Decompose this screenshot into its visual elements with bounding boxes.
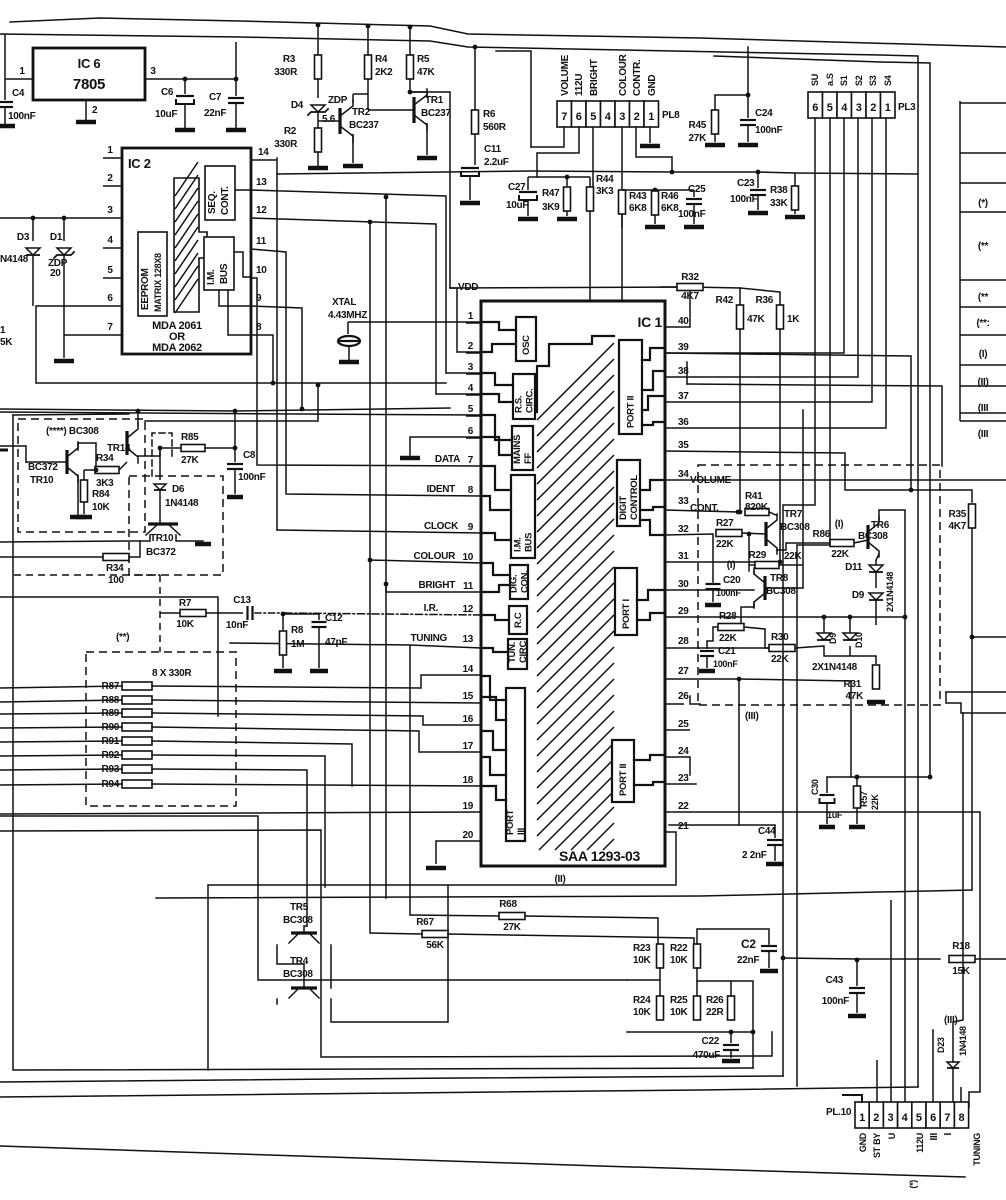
label (I) R86 xyxy=(835,519,844,530)
capacitor C22 470uF xyxy=(693,1032,739,1061)
wire D4/R2 node to TR2 base xyxy=(318,120,340,122)
svg-text:7: 7 xyxy=(107,322,113,333)
IC1 left pin 19 number xyxy=(462,801,473,812)
wire R44 bottom down xyxy=(589,230,591,301)
PL8 pin3 label COLOUR xyxy=(618,53,629,96)
svg-text:11: 11 xyxy=(256,236,267,247)
wire right stub y212 xyxy=(960,211,1006,213)
net label (II) xyxy=(977,377,988,388)
IC1 left pin 8 number xyxy=(468,485,474,496)
svg-text:5: 5 xyxy=(916,1112,922,1124)
svg-text:6K8: 6K8 xyxy=(661,203,679,214)
wire IC1 pin12 IR dashdot xyxy=(285,613,481,615)
resistor R43 6K8 xyxy=(619,190,648,228)
node C8 xyxy=(233,446,238,451)
svg-text:R46: R46 xyxy=(661,191,679,202)
svg-text:I.R.: I.R. xyxy=(424,603,439,614)
wire right rail y384 xyxy=(687,362,942,466)
svg-text:R85: R85 xyxy=(181,432,199,443)
wire TR4 base wire xyxy=(303,964,305,988)
label (II) below IC1 xyxy=(554,874,565,885)
wire R68 line xyxy=(410,915,658,944)
resistor R89 330R xyxy=(102,708,152,719)
svg-text:5: 5 xyxy=(590,111,596,123)
svg-text:N4148: N4148 xyxy=(0,254,29,265)
svg-text:R.S.: R.S. xyxy=(514,396,525,413)
svg-text:BRIGHT: BRIGHT xyxy=(589,59,600,96)
hline left tick xyxy=(0,449,8,452)
capacitor C20 100nF xyxy=(706,575,742,602)
wire R5 node to TR1/VDD xyxy=(410,92,450,288)
diode D10 xyxy=(843,617,864,648)
svg-text:100nF: 100nF xyxy=(730,194,758,205)
wire vertical B xyxy=(384,195,389,898)
svg-text:BC237: BC237 xyxy=(421,108,451,119)
IC1 left pin 10 number xyxy=(462,552,473,563)
label COLOUR pin10 xyxy=(413,551,456,562)
label CLOCK pin9 xyxy=(424,521,459,532)
svg-text:(I): (I) xyxy=(835,519,844,530)
svg-text:28: 28 xyxy=(678,636,689,647)
svg-text:D9: D9 xyxy=(828,633,838,644)
wire bottom bus line 3 xyxy=(0,1146,965,1177)
PL8 pin1 label GND xyxy=(647,75,658,96)
diode D9 mid xyxy=(817,617,838,644)
wire bus R87 to pin14 xyxy=(0,675,481,688)
svg-text:R32: R32 xyxy=(681,272,699,283)
svg-text:2: 2 xyxy=(634,111,640,123)
IC2 pin8 wire xyxy=(251,322,273,383)
svg-text:12: 12 xyxy=(256,205,267,216)
dashed box star4 xyxy=(18,419,145,532)
diode D11 xyxy=(845,560,883,573)
wire IC1 pin3 xyxy=(446,372,481,374)
wire bus R92 down xyxy=(0,755,325,887)
node R41 junction xyxy=(736,510,743,515)
wire bus R91 join pin18 xyxy=(0,741,352,786)
ground R8 xyxy=(274,669,292,674)
label TR14 xyxy=(107,443,131,454)
wire left vertical rail xyxy=(13,415,753,1070)
wire PL3 pin3 drop xyxy=(665,118,858,377)
svg-text:C21: C21 xyxy=(718,646,736,657)
ground XTAL xyxy=(339,360,359,365)
svg-text:D10: D10 xyxy=(854,632,864,648)
svg-text:47K: 47K xyxy=(417,67,436,78)
svg-text:TR10: TR10 xyxy=(150,533,174,544)
wire IC1 pin2 xyxy=(457,351,481,353)
IC1 right pin 25 number xyxy=(678,719,689,730)
svg-text:EEPROM: EEPROM xyxy=(140,268,151,310)
ground R45 xyxy=(705,143,725,148)
capacitor C2 22nF xyxy=(737,937,777,968)
IC1 hatch lines xyxy=(537,343,614,850)
wire PL3 pin4 drop xyxy=(665,118,844,353)
svg-text:R31: R31 xyxy=(844,679,862,690)
diode D23 1N4148 xyxy=(936,713,968,1107)
dashed stub D6 xyxy=(152,433,172,476)
ground C6 xyxy=(175,128,195,133)
IC2 internal wire seqcont pin13 xyxy=(235,189,251,191)
svg-text:4K7: 4K7 xyxy=(681,291,699,302)
svg-text:TR8: TR8 xyxy=(770,573,789,584)
wire right stub bottom2 xyxy=(946,692,1006,713)
wire R36 top xyxy=(779,292,781,305)
svg-text:(**): (**) xyxy=(116,632,129,643)
node R57 top xyxy=(855,775,860,780)
svg-text:C12: C12 xyxy=(325,613,343,624)
svg-text:PORT: PORT xyxy=(505,809,516,835)
IC1 right pin 24 number xyxy=(678,746,689,757)
resistor R26 22R xyxy=(706,981,735,1020)
wire TR14 emitter to R85 xyxy=(160,447,181,449)
svg-text:III: III xyxy=(929,1132,940,1140)
svg-text:R6: R6 xyxy=(483,109,496,120)
IC2 pin12 wire xyxy=(251,205,436,394)
transistor TR10 BC372 upper xyxy=(28,442,78,486)
IC2 SEQ CONT label xyxy=(207,186,231,215)
svg-text:(III: (III xyxy=(978,403,989,414)
svg-text:2: 2 xyxy=(92,105,98,116)
ground IC1 pin20 xyxy=(426,866,446,871)
wire right stub y307 xyxy=(960,306,1006,308)
wire PL10 pin8 feed xyxy=(960,1087,962,1102)
wire R46/C25 link xyxy=(655,189,694,191)
svg-text:R41: R41 xyxy=(745,491,763,502)
svg-text:13: 13 xyxy=(462,634,473,645)
wire D9D10 to R31 xyxy=(875,656,877,664)
svg-text:D1: D1 xyxy=(50,232,63,243)
ground TR2 xyxy=(343,164,363,169)
wire R42 top xyxy=(739,288,741,305)
wire IC1 pin5 long xyxy=(0,412,481,415)
label 2X1N4148 vertical xyxy=(885,572,895,612)
svg-text:33K: 33K xyxy=(770,198,789,209)
wire R23/R22 bottoms xyxy=(627,968,753,1068)
svg-text:DATA: DATA xyxy=(435,454,460,465)
wire R4 bottom to TR1 base xyxy=(368,79,414,110)
net label (*) xyxy=(978,198,988,209)
label VDD xyxy=(458,282,478,293)
svg-text:22K: 22K xyxy=(716,539,735,550)
svg-text:1N4148: 1N4148 xyxy=(165,498,199,509)
svg-text:a.S: a.S xyxy=(825,73,835,86)
wire vertical A xyxy=(368,220,373,933)
IC IC1 box xyxy=(481,301,665,866)
svg-text:TR4: TR4 xyxy=(290,956,309,967)
IC1 internal wires right xyxy=(634,348,665,785)
PL8 pin7 label VOLUME xyxy=(560,54,571,96)
wire R6 top xyxy=(473,45,478,110)
svg-text:(II): (II) xyxy=(554,874,565,885)
PL3 pin3 label S2 xyxy=(854,75,864,86)
IC1 internal box RC xyxy=(509,606,527,634)
ground D1 xyxy=(54,359,74,364)
IC1 right pin 30 number xyxy=(678,579,689,590)
resistor R24 10K xyxy=(633,980,664,1020)
node misc xyxy=(855,775,860,780)
svg-text:10: 10 xyxy=(462,552,473,563)
wire PL8 pin6 drop xyxy=(537,127,579,177)
svg-text:18: 18 xyxy=(462,775,473,786)
svg-text:47pF: 47pF xyxy=(325,637,347,648)
svg-text:1: 1 xyxy=(19,66,25,77)
wire C30/R57 rail xyxy=(827,775,932,780)
diode D9 upper xyxy=(852,590,883,601)
IC1 internal box TUN CIRC xyxy=(507,639,529,669)
ground PL8 pin1 xyxy=(640,144,660,149)
wire right column rail xyxy=(959,101,961,421)
svg-text:100: 100 xyxy=(108,575,125,586)
wire D6 down to TR10 base xyxy=(159,490,161,519)
wire TR4 arms xyxy=(277,886,448,1022)
wire D11 to D9 xyxy=(875,572,877,588)
PL10 pin5 label star xyxy=(908,1180,918,1189)
svg-text:27K: 27K xyxy=(689,133,708,144)
svg-text:8: 8 xyxy=(958,1112,964,1124)
resistor R36 1K xyxy=(756,295,801,329)
svg-text:1: 1 xyxy=(885,102,891,114)
PL10 pin7 label I xyxy=(943,1132,954,1135)
svg-text:R42: R42 xyxy=(716,295,734,306)
svg-text:C13: C13 xyxy=(233,595,251,606)
wire PL8 pin5 drop to R44 xyxy=(592,127,594,187)
svg-text:(III: (III xyxy=(978,429,989,440)
svg-text:47K: 47K xyxy=(846,691,865,702)
svg-text:16: 16 xyxy=(462,714,473,725)
svg-text:IC 6: IC 6 xyxy=(78,56,101,71)
svg-text:1M: 1M xyxy=(291,639,304,650)
svg-text:C20: C20 xyxy=(723,575,741,586)
svg-text:21: 21 xyxy=(678,821,689,832)
svg-text:5: 5 xyxy=(468,404,474,415)
wire PL10 pin2 feed xyxy=(876,1060,878,1102)
ground R84 xyxy=(76,515,92,520)
svg-text:36: 36 xyxy=(678,417,689,428)
resistor R6 560R xyxy=(472,109,507,134)
capacitor C27 10uF xyxy=(506,177,537,216)
svg-text:BUS: BUS xyxy=(524,533,535,552)
wire TR2 collector up to R4 xyxy=(353,94,368,103)
svg-text:330R: 330R xyxy=(274,67,298,78)
svg-text:TR5: TR5 xyxy=(290,902,309,913)
wire R67 line xyxy=(370,933,694,944)
IC1 right pin 33 number xyxy=(678,496,689,507)
svg-text:6: 6 xyxy=(576,111,582,123)
wire PL10 pin6 feed xyxy=(932,1030,934,1102)
node R46 top xyxy=(653,188,658,193)
IC1 right pin 21 number xyxy=(678,821,689,832)
wire pin13 horiz xyxy=(410,645,481,648)
wire C27/R47/R44 top rail xyxy=(528,176,590,178)
svg-text:BC372: BC372 xyxy=(28,462,58,473)
svg-text:U: U xyxy=(887,1133,897,1139)
svg-text:1: 1 xyxy=(859,1112,865,1124)
PL10 pin1 label GND xyxy=(858,1132,868,1152)
capacitor C13 10nF xyxy=(226,595,253,631)
resistor R57 22K xyxy=(854,777,881,824)
svg-text:3: 3 xyxy=(107,205,113,216)
svg-text:10nF: 10nF xyxy=(226,620,248,631)
resistor R94 330R xyxy=(102,779,152,790)
IC1 internal box OSC xyxy=(516,317,536,361)
svg-text:6K8: 6K8 xyxy=(629,203,647,214)
svg-text:C23: C23 xyxy=(737,178,755,189)
PL10 pin2 label ST BY xyxy=(872,1133,882,1158)
svg-text:R86: R86 xyxy=(813,529,831,540)
svg-text:10: 10 xyxy=(256,265,267,276)
svg-text:47K: 47K xyxy=(747,314,766,325)
node IC6 out junction xyxy=(183,77,239,82)
svg-text:C43: C43 xyxy=(826,975,844,986)
IC1 left pin 6 number xyxy=(468,426,474,437)
wire TR2 emitter to gnd xyxy=(352,134,354,163)
wire R27 right xyxy=(742,533,765,534)
net label (**: xyxy=(976,318,989,329)
wire R3 top to supply xyxy=(316,23,413,55)
IC1 right pin 28 number xyxy=(678,636,689,647)
capacitor C44 2.2nF xyxy=(669,825,783,861)
svg-text:S2: S2 xyxy=(854,75,864,86)
ground C8 xyxy=(227,495,243,500)
label 2X1N4148 xyxy=(812,662,858,673)
ground C12 xyxy=(310,669,328,674)
IC1 left pin 17 number xyxy=(462,741,473,752)
IC1 right pin 39 number xyxy=(678,342,689,353)
wire pin24 xyxy=(665,757,690,775)
wire rail vertical 277 to CLOCK xyxy=(276,174,278,530)
wire PL10 pin1 stub top xyxy=(843,1095,862,1102)
label 5K partial xyxy=(0,337,13,348)
wire TR10u base xyxy=(0,446,67,462)
svg-text:TUNING: TUNING xyxy=(972,1133,982,1166)
svg-text:OSC: OSC xyxy=(521,335,532,355)
wire IC1 pin13 TUNING xyxy=(230,643,410,915)
svg-text:22K: 22K xyxy=(719,633,738,644)
svg-text:TR6: TR6 xyxy=(871,520,890,531)
svg-text:10K: 10K xyxy=(633,955,652,966)
PL10 pin8 label TUNING xyxy=(972,1133,982,1166)
wire right stub y386 xyxy=(960,385,1006,387)
wire IC1 pin20 xyxy=(436,840,481,842)
svg-text:R36: R36 xyxy=(756,295,774,306)
wire R5 bottom to TR1 collector xyxy=(410,79,427,98)
svg-text:R27: R27 xyxy=(716,518,734,529)
label BRIGHT pin11 xyxy=(418,580,455,591)
svg-text:7805: 7805 xyxy=(73,76,105,93)
wire right stub y103 xyxy=(960,102,1006,104)
wire right bundle r35 bottom xyxy=(972,636,1006,638)
resistor R22 10K xyxy=(670,943,701,968)
IC1 right pin 31 number xyxy=(678,551,689,562)
resistor R38 33K xyxy=(770,173,799,214)
svg-text:10K: 10K xyxy=(176,619,195,630)
label I.R. pin12 xyxy=(424,603,439,614)
svg-text:R5: R5 xyxy=(417,54,430,65)
svg-text:30: 30 xyxy=(678,579,689,590)
ground C44 xyxy=(766,862,784,867)
IC2 pin13 wire xyxy=(251,177,446,373)
wire y421 link xyxy=(145,383,320,421)
transistor TR7 BC308 xyxy=(766,509,810,554)
svg-text:37: 37 xyxy=(678,391,689,402)
svg-text:15: 15 xyxy=(462,691,473,702)
node R5-TR1 xyxy=(408,90,413,95)
svg-text:33: 33 xyxy=(678,496,689,507)
wire PL8 pin3 drop long xyxy=(621,127,623,190)
node R36 pin31 xyxy=(778,560,783,565)
resistor R42 47K xyxy=(716,295,766,329)
svg-text:I.M.: I.M. xyxy=(513,537,524,552)
svg-text:100nF: 100nF xyxy=(8,111,36,122)
resistor R28 22K xyxy=(713,611,765,644)
ground C24 xyxy=(738,143,758,148)
ground C27 xyxy=(518,217,538,222)
IC1 right pin 36 number xyxy=(678,417,689,428)
svg-text:MAINS: MAINS xyxy=(512,435,523,464)
svg-text:R30: R30 xyxy=(771,632,789,643)
IC1 right pin 27 number xyxy=(678,666,689,677)
wire IC1 pin4 xyxy=(436,393,481,395)
wire right stub y153 xyxy=(960,152,1006,154)
node pin3 junctions xyxy=(31,216,67,221)
wire right stub y280 xyxy=(960,279,1006,281)
IC2 pin10 wire xyxy=(251,265,481,466)
transistor TR1 BC237 xyxy=(414,89,451,131)
resistor R32 4K7 xyxy=(660,272,703,302)
svg-text:BC237: BC237 xyxy=(349,120,379,131)
svg-text:17: 17 xyxy=(462,741,473,752)
dashed box TR10 lower xyxy=(129,476,223,575)
IC2 pin2 stub xyxy=(103,173,122,186)
wire right stub y413 xyxy=(960,412,1006,414)
resistor R30 22K xyxy=(765,629,795,665)
svg-text:39: 39 xyxy=(678,342,689,353)
net label (I) xyxy=(979,349,988,360)
label (III) D23 xyxy=(944,1015,958,1026)
IC1 right pin 40 number xyxy=(678,316,689,327)
IC1 internal box MAINS FF xyxy=(512,426,534,470)
svg-text:22nF: 22nF xyxy=(204,108,226,119)
svg-text:6: 6 xyxy=(812,102,818,114)
svg-text:1: 1 xyxy=(468,311,474,322)
label IDENT pin8 xyxy=(426,484,455,495)
PL8 name label xyxy=(662,110,680,121)
svg-text:GND: GND xyxy=(858,1132,868,1152)
PL3 pin5 label a.S xyxy=(825,73,835,86)
svg-text:6: 6 xyxy=(468,426,474,437)
wire TR6 collector up xyxy=(879,510,905,520)
wire IC1 pin10 COLOUR xyxy=(370,560,481,563)
svg-text:CIRC: CIRC xyxy=(518,641,529,663)
IC6 pin 3 wire xyxy=(145,66,236,79)
ground R57 xyxy=(849,825,865,830)
ground C7 xyxy=(226,128,246,133)
svg-text:R35: R35 xyxy=(949,509,967,520)
wire pin21 xyxy=(208,832,676,885)
svg-text:S1: S1 xyxy=(839,75,849,86)
PL8 pin5 label BRIGHT xyxy=(589,59,600,96)
net label (** xyxy=(978,292,989,303)
wire TR10u collector xyxy=(78,443,96,470)
IC6 label xyxy=(73,56,105,93)
wire pin33 CONT long xyxy=(665,510,738,512)
wire C7 top to supply xyxy=(235,42,237,79)
svg-text:C27: C27 xyxy=(508,182,526,193)
IC1 internal box PORT II xyxy=(619,340,642,434)
resistor R7 10K xyxy=(160,598,243,630)
wire bus R88 to pin15 xyxy=(0,700,481,703)
